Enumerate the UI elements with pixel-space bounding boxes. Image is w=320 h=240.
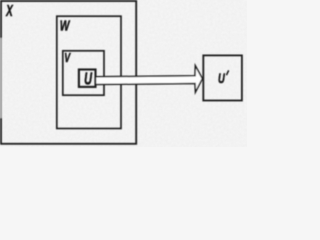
svg-text:X: X <box>5 3 13 20</box>
box U' <box>203 55 242 100</box>
wire: faded segment of X left border (scan fade) <box>0 38 2 118</box>
svg-text:V: V <box>64 50 71 65</box>
box X <box>1 1 136 144</box>
label U' prime mark <box>227 71 229 75</box>
arrow U to U' <box>96 66 203 93</box>
box U <box>79 70 96 87</box>
svg-text:U: U <box>218 71 226 86</box>
box V <box>63 51 104 95</box>
svg-text:W: W <box>60 18 71 35</box>
box W <box>57 16 121 128</box>
svg-text:U: U <box>84 69 92 89</box>
